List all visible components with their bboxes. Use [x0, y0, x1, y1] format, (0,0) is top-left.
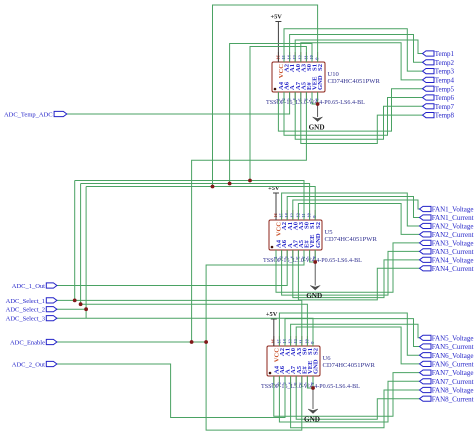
junction enable bus left	[190, 340, 194, 344]
wire U6 A6 to FAN7_Current	[279, 376, 420, 422]
svg-text:FAN2_Voltage: FAN2_Voltage	[432, 223, 474, 231]
label U10 footprint	[266, 100, 365, 106]
svg-text:Temp3: Temp3	[435, 68, 455, 76]
wire U5 A7 to FAN4_Voltage	[293, 250, 421, 298]
port FAN6_Voltage	[420, 352, 474, 360]
svg-text:14: 14	[284, 213, 289, 218]
svg-text:12: 12	[295, 213, 300, 218]
svg-text:12: 12	[298, 55, 303, 60]
svg-text:11: 11	[299, 339, 304, 344]
wire U5 E# to enable bus	[206, 250, 304, 342]
svg-text:Temp6: Temp6	[435, 94, 455, 102]
port Temp4	[423, 77, 455, 85]
wire U10 A4 to Temp5	[278, 89, 422, 131]
svg-text:11: 11	[301, 213, 306, 218]
svg-text:FAN7_Voltage: FAN7_Voltage	[432, 369, 474, 377]
port FAN7_Voltage	[420, 369, 474, 377]
svg-text:ADC_Select_3: ADC_Select_3	[6, 316, 45, 323]
wire U10 S0 up-left	[250, 47, 306, 181]
wire U6 A5 to FAN8_Current	[296, 376, 420, 419]
svg-text:FAN1_Current: FAN1_Current	[432, 214, 474, 222]
wire ADC_1_Out to U5 A	[57, 250, 287, 286]
port Temp6	[423, 94, 455, 102]
svg-text:GND: GND	[313, 359, 320, 374]
svg-text:11: 11	[303, 55, 308, 60]
port ADC_Select_3	[6, 316, 57, 323]
svg-text:S2: S2	[317, 63, 324, 71]
IC U10 CD74HC4051PWR analog multiplexer body	[272, 62, 325, 92]
wire U10 S1 up-left	[230, 44, 312, 184]
label U6 footprint	[261, 384, 360, 390]
ground U10	[309, 104, 325, 132]
port FAN3_Current	[420, 248, 474, 256]
svg-text:12: 12	[293, 339, 298, 344]
pin stubs U6	[274, 336, 313, 386]
IC U5 CD74HC4051PWR analog multiplexer body	[269, 220, 322, 250]
svg-text:ADC_Select_2: ADC_Select_2	[6, 307, 45, 314]
port FAN5_Current	[420, 343, 474, 351]
svg-text:15: 15	[281, 55, 286, 60]
svg-text:ADC_1_Out: ADC_1_Out	[12, 283, 45, 290]
wire U6 A7 to FAN8_Voltage	[291, 376, 421, 428]
svg-text:+5V: +5V	[266, 311, 278, 318]
svg-text:9: 9	[310, 341, 315, 344]
svg-text:15: 15	[276, 339, 281, 344]
wire ADC_Select_2 stub	[57, 308, 86, 310]
wire U5 A1 to FAN1_Current	[287, 197, 420, 221]
pin numbers 1-16 U6	[271, 339, 315, 385]
svg-text:FAN6_Voltage: FAN6_Voltage	[432, 352, 474, 360]
wire ADC_Select_3 row to U6 S2	[57, 318, 313, 346]
port Temp8	[423, 112, 455, 120]
svg-text:+5V: +5V	[270, 13, 282, 20]
svg-text:FAN8_Current: FAN8_Current	[432, 395, 474, 403]
svg-text:GND: GND	[309, 124, 325, 132]
svg-text:13: 13	[290, 213, 295, 218]
svg-text:U5: U5	[325, 229, 334, 236]
ground U5	[306, 262, 322, 300]
wire ADC_Enable row	[57, 341, 206, 343]
port FAN1_Voltage	[420, 206, 474, 214]
wire U5 A6 to FAN3_Current	[282, 250, 421, 295]
pin numbers 1-16 U10	[275, 55, 319, 101]
wire select mid row to U6 S1	[81, 304, 308, 346]
svg-text:FAN6_Current: FAN6_Current	[432, 361, 474, 369]
pin names U6	[273, 347, 319, 374]
svg-text:ADC_Select_1: ADC_Select_1	[6, 298, 45, 305]
svg-text:FAN4_Current: FAN4_Current	[432, 265, 474, 273]
svg-text:FAN8_Voltage: FAN8_Voltage	[432, 387, 474, 395]
wire U10 A common to ADC_Temp_ADC	[67, 92, 290, 114]
junction U10 VEE-GND	[316, 102, 320, 106]
ground U6	[304, 388, 320, 424]
pin 1 marker U5	[271, 246, 274, 249]
svg-text:GND: GND	[317, 75, 324, 90]
junction SELECT_2 at mid row	[79, 302, 83, 306]
svg-text:FAN7_Current: FAN7_Current	[432, 378, 474, 386]
wire U5 A0 to FAN1_Voltage	[293, 200, 421, 220]
svg-text:FAN3_Current: FAN3_Current	[432, 248, 474, 256]
svg-text:TSSOP-16_L5.0-W4.4-P0.65-LS6.4: TSSOP-16_L5.0-W4.4-P0.65-LS6.4-BL	[263, 258, 362, 264]
net SELECT_1 bus row	[75, 181, 304, 301]
svg-text:+5V: +5V	[268, 185, 280, 192]
svg-text:S2: S2	[313, 347, 320, 355]
port FAN2_Voltage	[420, 223, 474, 231]
svg-text:ADC_Temp_ADC: ADC_Temp_ADC	[4, 111, 53, 118]
svg-text:FAN5_Current: FAN5_Current	[432, 343, 474, 351]
svg-text:U6: U6	[323, 355, 332, 362]
svg-text:FAN2_Current: FAN2_Current	[432, 231, 474, 239]
label U5 refdes	[325, 229, 378, 243]
pin 1 marker U6	[269, 372, 272, 375]
wire U10 A7 to Temp7	[295, 92, 422, 139]
pin names U5	[276, 221, 322, 248]
svg-text:13: 13	[288, 339, 293, 344]
svg-text:FAN1_Voltage: FAN1_Voltage	[432, 206, 474, 214]
svg-text:GND: GND	[306, 292, 322, 300]
power +5V at U5 VCC	[268, 185, 280, 220]
junction S2 net mid column	[211, 185, 215, 189]
svg-text:Temp2: Temp2	[435, 59, 455, 67]
svg-text:10: 10	[307, 213, 312, 218]
svg-text:9: 9	[315, 57, 320, 60]
wire U6 A2 to FAN6_Voltage	[279, 313, 420, 355]
svg-text:TSSOP-16_L5.0-W4.4-P0.65-LS6.4: TSSOP-16_L5.0-W4.4-P0.65-LS6.4-BL	[266, 100, 365, 106]
svg-text:Temp5: Temp5	[435, 85, 455, 93]
svg-text:FAN4_Voltage: FAN4_Voltage	[432, 256, 474, 264]
wire U10 A2 to Temp3	[284, 29, 423, 71]
junction U6 VEE-GND	[311, 386, 315, 390]
power +5V at U6 VCC	[266, 311, 278, 346]
pin numbers 1-16 U5	[273, 213, 317, 259]
svg-text:14: 14	[287, 55, 292, 60]
svg-text:TSSOP-16_L5.0-W4.4-P0.65-LS6.4: TSSOP-16_L5.0-W4.4-P0.65-LS6.4-BL	[261, 384, 360, 390]
junction SELECT_3 at select2 row	[84, 307, 88, 311]
port FAN4_Current	[420, 265, 474, 273]
port FAN8_Voltage	[420, 387, 474, 395]
svg-text:CD74HC4051PWR: CD74HC4051PWR	[325, 236, 378, 243]
wire U10 GND pin down	[317, 92, 319, 104]
svg-text:ADC_Enable: ADC_Enable	[10, 339, 45, 346]
wire U10 A6 to Temp6	[284, 92, 423, 135]
port Temp5	[423, 85, 455, 93]
svg-text:16: 16	[275, 55, 280, 60]
pin stubs U10	[278, 52, 317, 102]
svg-text:14: 14	[282, 339, 287, 344]
svg-text:Temp1: Temp1	[435, 50, 455, 58]
port ADC_Enable	[10, 339, 57, 346]
svg-text:FAN5_Voltage: FAN5_Voltage	[432, 334, 474, 342]
port FAN7_Current	[420, 378, 474, 386]
junction enable bus right	[204, 340, 208, 344]
pin stubs U5	[276, 210, 315, 260]
port FAN8_Current	[420, 395, 474, 403]
net SELECT_3 bus row	[86, 187, 315, 310]
port FAN6_Current	[420, 361, 474, 369]
wire U5 A5 to FAN4_Current	[298, 250, 420, 300]
port Temp7	[423, 103, 455, 111]
svg-text:15: 15	[279, 213, 284, 218]
svg-text:ADC_2_Out: ADC_2_Out	[12, 361, 45, 368]
wire enable bus down to U6 E#	[206, 342, 302, 430]
wire U5 A2 to FAN2_Voltage	[282, 193, 421, 226]
net SELECT_2 bus row	[81, 184, 310, 305]
pin 1 marker U10	[274, 88, 277, 91]
svg-text:16: 16	[273, 213, 278, 218]
wire U10 E# enable staircase	[192, 92, 307, 342]
wire U5 A3 to FAN2_Current	[298, 204, 420, 235]
svg-text:16: 16	[271, 339, 276, 344]
wire U6 GND pin down	[312, 376, 314, 388]
port ADC_Select_2	[6, 307, 57, 314]
port ADC_2_Out	[12, 361, 57, 368]
junction SELECT_1 at select row	[73, 299, 77, 303]
wire U10 A0 to Temp1	[295, 40, 422, 62]
svg-text:Temp4: Temp4	[435, 77, 455, 85]
port Temp2	[423, 59, 455, 67]
svg-text:Temp8: Temp8	[435, 112, 455, 120]
svg-text:GND: GND	[315, 233, 322, 248]
port ADC_Temp_ADC	[4, 111, 67, 118]
wire U10 S2 top loop	[213, 5, 318, 187]
label U6 refdes	[323, 355, 376, 369]
wire U6 A0 to FAN5_Voltage	[291, 324, 421, 346]
port ADC_Select_1	[6, 298, 57, 305]
junction S0 net mid column	[248, 179, 252, 183]
port FAN4_Voltage	[420, 256, 474, 264]
svg-text:GND: GND	[304, 416, 320, 424]
svg-text:CD74HC4051PWR: CD74HC4051PWR	[323, 362, 376, 369]
svg-text:10: 10	[309, 55, 314, 60]
power +5V at U10 VCC	[270, 13, 282, 62]
wire U6 A4 to FAN7_Voltage	[274, 373, 421, 417]
wire U5 VEE jog to GND	[310, 250, 316, 262]
wire U6 VEE jog to GND	[307, 376, 313, 388]
svg-text:9: 9	[312, 215, 317, 218]
port FAN5_Voltage	[420, 334, 474, 342]
wire U5 GND pin down	[314, 250, 316, 262]
svg-text:Temp7: Temp7	[435, 103, 455, 111]
svg-text:U10: U10	[328, 71, 340, 78]
svg-text:FAN3_Voltage: FAN3_Voltage	[432, 239, 474, 247]
wire U6 A1 to FAN5_Current	[285, 319, 421, 347]
wire select column jog	[85, 309, 87, 318]
junction S1 net mid column	[228, 182, 232, 186]
svg-text:10: 10	[304, 339, 309, 344]
wire ADC_2_Out to U6 A	[57, 364, 285, 418]
port FAN2_Current	[420, 231, 474, 239]
wire U10 A3 to Temp4	[301, 43, 423, 80]
pin names U10	[278, 63, 324, 90]
wire U10 VEE jog to GND	[312, 92, 318, 104]
IC U6 CD74HC4051PWR analog multiplexer body	[267, 346, 320, 376]
port Temp1	[423, 50, 455, 58]
label U10 refdes	[328, 71, 381, 85]
port FAN3_Voltage	[420, 239, 474, 247]
port FAN1_Current	[420, 214, 474, 222]
wire U6 A3 to FAN6_Current	[296, 327, 420, 364]
port ADC_1_Out	[12, 283, 57, 290]
label U5 footprint	[263, 258, 362, 264]
wire U10 A1 to Temp2	[290, 35, 423, 63]
wire ADC_Select_1 row to U6 S0	[57, 300, 302, 346]
svg-text:CD74HC4051PWR: CD74HC4051PWR	[328, 78, 381, 85]
wire U10 A5 to Temp8	[301, 92, 423, 144]
svg-text:S2: S2	[315, 221, 322, 229]
wire U5 A4 to FAN3_Voltage	[276, 243, 421, 292]
svg-text:13: 13	[292, 55, 297, 60]
junction U5 VEE-GND	[313, 260, 317, 264]
port Temp3	[423, 68, 455, 76]
